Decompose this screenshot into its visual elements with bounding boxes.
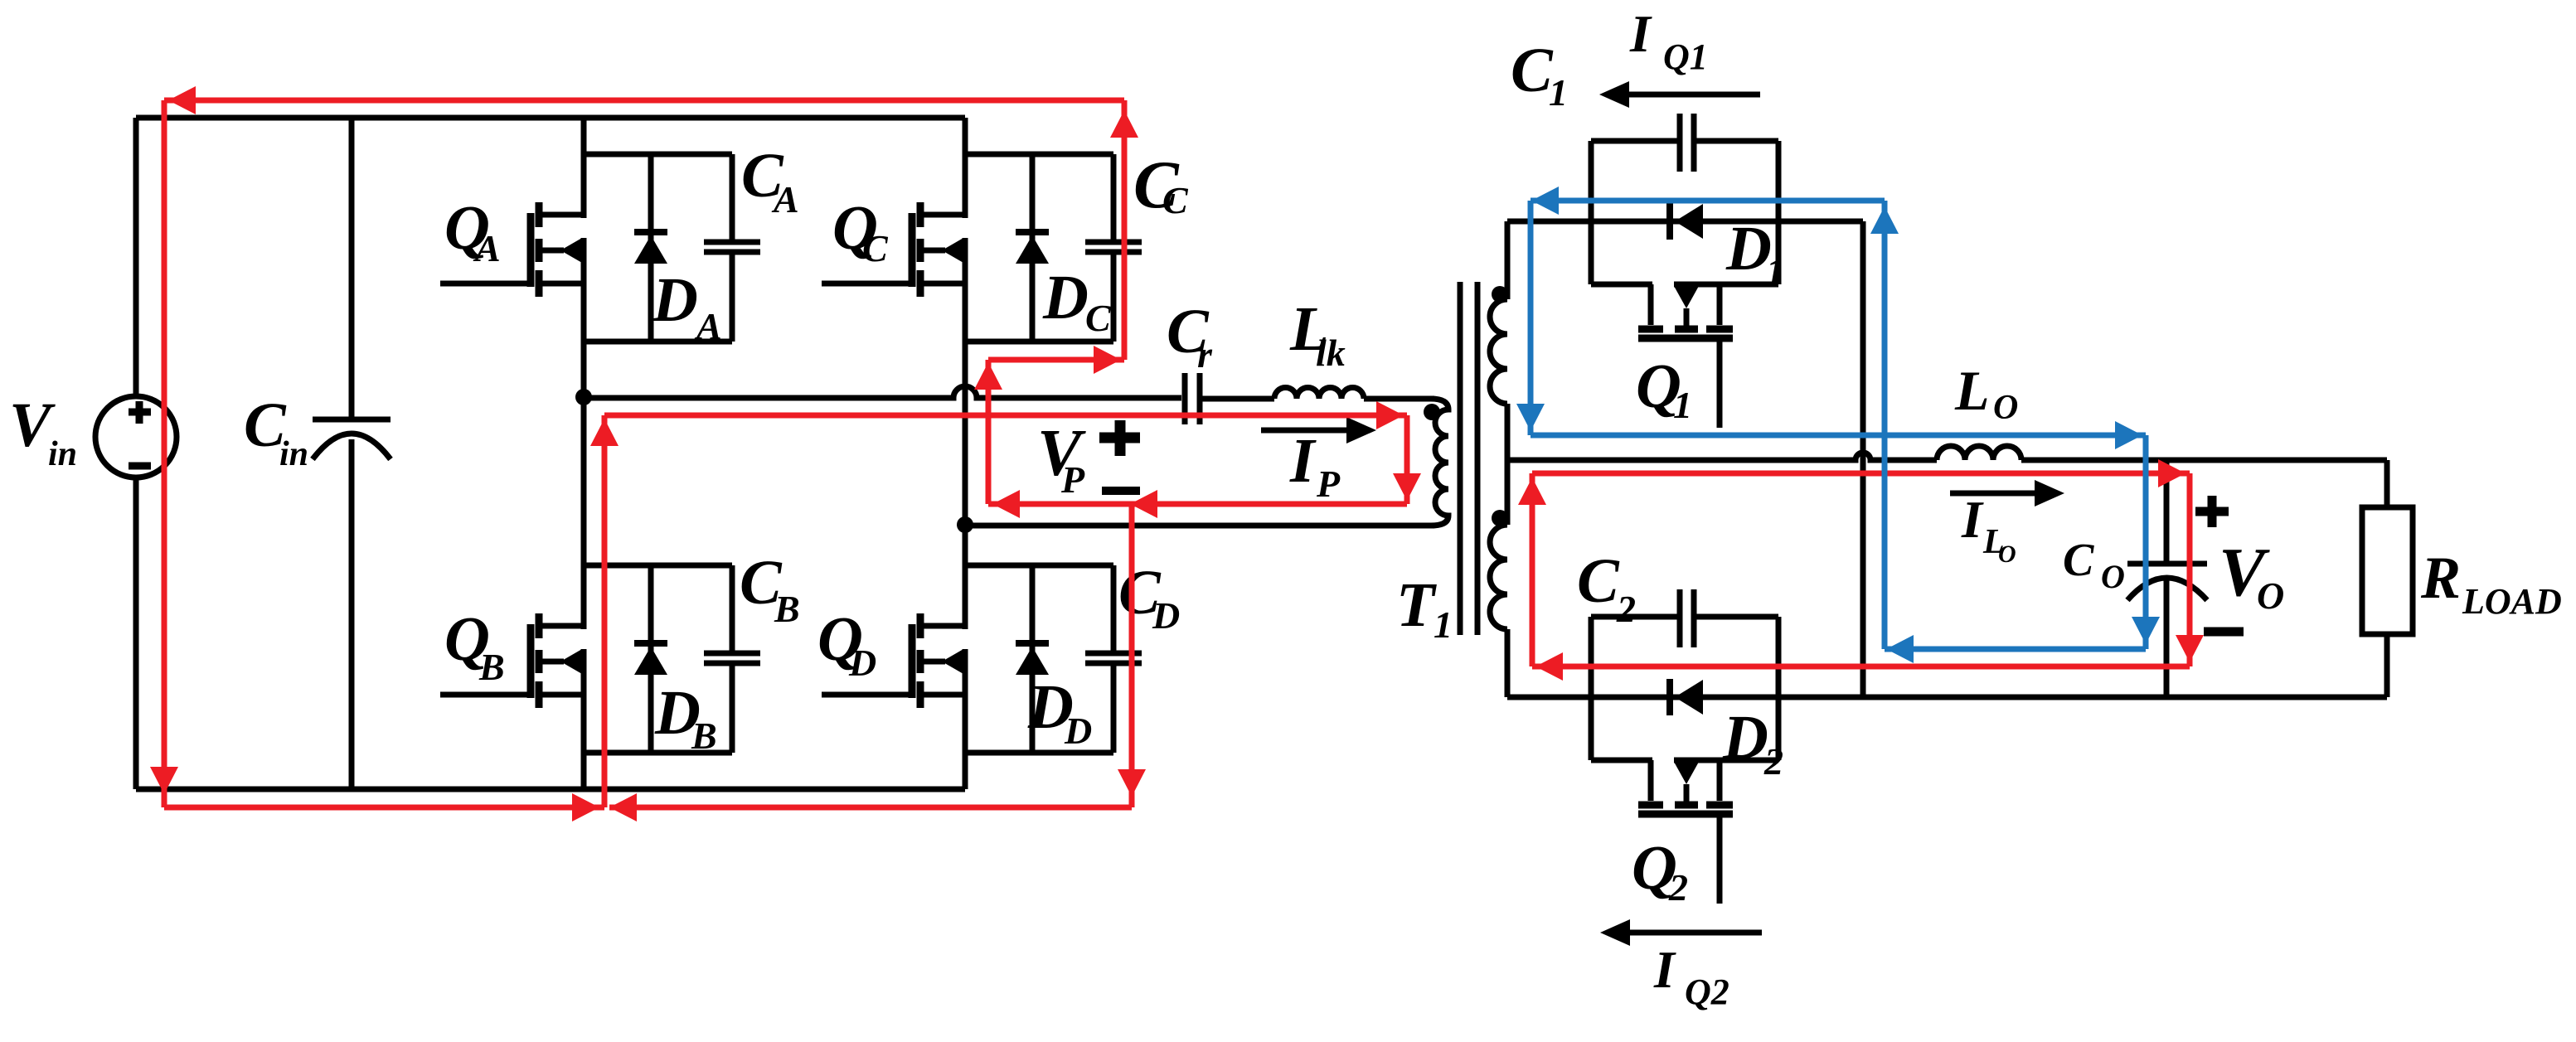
capacitor Cin top lead	[349, 118, 355, 419]
wire blue mid segment	[1531, 433, 2146, 439]
VP plus sign	[1099, 420, 1140, 456]
wire snubber box bottom (QA cell)	[584, 339, 732, 345]
capacitor CD upper lead	[1111, 565, 1117, 653]
transistor QA channel segments	[536, 202, 543, 227]
svg-text:D: D	[1725, 214, 1772, 284]
diode D1 triangle	[1675, 204, 1703, 239]
transistor QD gate bar	[909, 624, 916, 698]
red arrowhead left (sec bottom)	[1535, 652, 1563, 681]
wire C2 box top	[1591, 614, 1680, 620]
capacitor CA lower lead	[730, 252, 735, 342]
transistor Q2 drain lead	[1648, 760, 1654, 801]
svg-text:I: I	[1961, 490, 1984, 549]
transistor QD channel segments	[917, 613, 924, 638]
wire bottom secondary rail	[1507, 695, 2387, 700]
svg-text:D: D	[1722, 703, 1768, 773]
svg-text:1: 1	[1673, 384, 1692, 426]
wire leg B source vertical	[581, 649, 587, 789]
diode DA triangle	[634, 235, 667, 264]
output minus sign	[2204, 628, 2244, 637]
node A (junction dot)	[575, 389, 592, 405]
wire Cr to Llk	[1200, 396, 1274, 402]
red arrowhead down (left segment)	[150, 767, 178, 794]
output plus sign	[2195, 496, 2229, 527]
diode DA vertical wire	[648, 154, 654, 342]
diode DD cathode bar	[1016, 640, 1049, 647]
wire snubber box top (QB cell)	[584, 563, 732, 569]
wire leg A drain vertical	[581, 118, 587, 218]
wire red loop CC riser	[1122, 100, 1128, 360]
capacitor Cin bottom lead	[349, 439, 355, 789]
diode DB triangle	[634, 647, 667, 675]
capacitor Cin top plate	[313, 417, 391, 423]
diode D1 cathode bar	[1666, 203, 1673, 240]
transformer T1 primary winding	[1431, 399, 1448, 526]
capacitor CC plates	[1085, 240, 1142, 245]
wire red sec riser	[1530, 473, 1535, 666]
wire primary return to node B	[965, 523, 1434, 529]
transistor Q2 body arrow	[1684, 784, 1690, 804]
svg-text:T: T	[1396, 570, 1437, 640]
capacitor CB lower lead	[730, 663, 735, 753]
wire snubber box bottom (QB cell)	[584, 750, 732, 756]
current arrow IQ2	[1628, 930, 1762, 936]
transformer top secondary polarity dot	[1492, 286, 1508, 303]
wire C1 box right	[1776, 141, 1782, 284]
diode DD triangle	[1016, 647, 1049, 675]
capacitor Co curved plate	[2127, 578, 2207, 600]
resistor RLOAD bottom lead	[2384, 634, 2390, 697]
wire snubber box bottom (QC cell)	[965, 339, 1113, 345]
red arrowhead right (bottom-left)	[572, 793, 599, 821]
svg-text:I: I	[1289, 426, 1317, 496]
transistor QD source lead	[923, 692, 965, 698]
transistor QA source lead	[541, 281, 584, 287]
transistor Q1 source lead	[1717, 284, 1723, 325]
red arrowhead up (QB riser)	[590, 419, 619, 446]
wire red loop top segment	[164, 98, 1124, 104]
wire D1 rail right drop	[1860, 221, 1866, 697]
wire Llk to primary winding	[1364, 396, 1434, 402]
blue arrowhead down (output drop)	[2132, 617, 2160, 644]
wire C2 box left	[1589, 617, 1594, 760]
wire red loop left segment	[162, 100, 167, 807]
wire leg C drain vertical	[963, 118, 968, 218]
wire blue top segment	[1531, 198, 1885, 204]
capacitor C2 plates	[1677, 589, 1683, 647]
svg-text:B: B	[691, 715, 717, 757]
wire red branch CD drop	[1129, 504, 1135, 807]
capacitor CA upper lead	[730, 154, 735, 242]
transformer secondary top stem	[1505, 221, 1511, 299]
diode D2 triangle	[1675, 680, 1703, 715]
blue arrowhead left (bottom)	[1886, 635, 1914, 663]
wire snubber box bottom (QD cell)	[965, 750, 1113, 756]
svg-text:D: D	[1064, 710, 1092, 752]
transformer T1 top secondary winding	[1490, 299, 1507, 404]
red arrowhead down (primary drop)	[1393, 473, 1421, 501]
svg-text:C: C	[1162, 179, 1189, 221]
wire snubber box top (QD cell)	[965, 563, 1113, 569]
transistor Q1 gate bar	[1638, 335, 1733, 342]
transistor QB drain lead	[541, 623, 584, 629]
svg-text:C: C	[862, 227, 889, 269]
wire C1 box left	[1589, 141, 1594, 284]
wire blue winding drop	[1528, 201, 1534, 435]
Vin plus sign	[129, 401, 151, 424]
capacitor Co top plate	[2127, 561, 2207, 567]
wire left vertical (Vin branch bottom)	[133, 475, 139, 789]
svg-text:C: C	[1577, 546, 1620, 616]
transistor QB source lead	[541, 692, 584, 698]
transformer T1 bottom secondary winding	[1490, 525, 1507, 629]
transformer secondary bottom stem	[1505, 629, 1511, 697]
svg-text:Q2: Q2	[1685, 972, 1729, 1012]
wire blue output drop	[2143, 435, 2149, 649]
diode DC vertical wire	[1030, 154, 1036, 342]
svg-text:O: O	[1993, 389, 2018, 427]
wire blue bottom segment	[1885, 647, 2146, 652]
diode DC cathode bar	[1016, 229, 1049, 235]
blue arrowhead left (top)	[1531, 187, 1559, 215]
red arrowhead down (CD drop)	[1118, 769, 1146, 797]
svg-text:B: B	[478, 646, 505, 688]
svg-text:P: P	[1060, 458, 1085, 501]
wire C2 box right	[1776, 617, 1782, 760]
transistor QC channel segments	[917, 202, 924, 227]
capacitor Cr plates	[1182, 373, 1188, 424]
blue arrowhead down (winding drop)	[1516, 404, 1545, 431]
capacitor CB upper lead	[730, 565, 735, 653]
transistor QC source lead	[923, 281, 965, 287]
capacitor CD plates	[1085, 651, 1142, 657]
svg-text:in: in	[48, 435, 77, 473]
resistor RLOAD top lead	[2384, 460, 2390, 507]
transistor Q2 channel segments	[1638, 802, 1663, 809]
blue arrowhead right (mid)	[2115, 421, 2142, 449]
red arrowhead up (CC riser)	[1110, 110, 1138, 138]
wire leg D source vertical	[963, 649, 968, 789]
svg-text:1: 1	[1549, 71, 1568, 114]
wire red loop QB riser	[602, 415, 608, 807]
svg-text:D: D	[1152, 594, 1180, 637]
svg-text:A: A	[771, 178, 799, 221]
capacitor Co top lead	[2164, 460, 2170, 564]
red arrowhead up (VP riser)	[974, 362, 1002, 390]
diode DB cathode bar	[634, 640, 667, 647]
svg-text:A: A	[694, 305, 722, 347]
Vin minus sign	[129, 463, 151, 470]
wire red loop CC link	[988, 357, 1124, 363]
wire Lo to load	[2021, 458, 2387, 463]
svg-text:O: O	[2101, 558, 2125, 595]
wire red loop VP return segment	[988, 502, 1407, 507]
transistor Q1 gate lead	[1717, 341, 1723, 428]
capacitor Co bottom lead	[2164, 580, 2170, 697]
wire blue riser	[1882, 201, 1888, 649]
wire leg CD mid vertical	[963, 238, 968, 629]
red arrowhead left (VP return, right)	[1130, 490, 1157, 518]
diode DC triangle	[1016, 235, 1049, 264]
VP minus sign	[1102, 487, 1140, 495]
capacitor CB plates	[704, 651, 760, 657]
diode DD vertical wire	[1030, 565, 1036, 753]
svg-text:C: C	[2063, 535, 2094, 586]
red arrowhead left (VP return, left)	[992, 490, 1020, 518]
transistor QA gate bar	[527, 213, 535, 287]
wire red loop primary drop	[1404, 415, 1410, 504]
inductor Lo	[1937, 446, 2021, 460]
wire red branch bottom-right segment	[609, 805, 1132, 811]
wire C2 box bottom	[1591, 758, 1652, 763]
wire bottom rail	[136, 787, 965, 792]
blue arrowhead up (riser)	[1870, 206, 1899, 234]
transistor Q1 channel segments	[1638, 326, 1663, 333]
diode DB vertical wire	[648, 565, 654, 753]
svg-text:A: A	[473, 227, 501, 269]
svg-text:O: O	[1998, 540, 2016, 568]
wire leg AB mid vertical	[581, 238, 587, 629]
transistor Q2 gate lead	[1717, 817, 1723, 904]
inductor Llk	[1274, 388, 1364, 399]
wire top rail	[136, 115, 965, 121]
resistor RLOAD body	[2362, 507, 2413, 634]
wire center-tap rail with hop and Lo	[1507, 453, 1937, 460]
transistor QC body arrow	[923, 248, 945, 254]
svg-text:1: 1	[1434, 603, 1453, 646]
transistor QB channel segments	[536, 613, 543, 638]
svg-text:r: r	[1197, 333, 1213, 376]
svg-text:I: I	[1653, 940, 1676, 999]
red arrowhead right (sec top)	[2158, 459, 2185, 487]
transistor QC drain lead	[923, 212, 965, 218]
transistor Q2 source lead	[1717, 760, 1723, 801]
current arrow ILo	[1950, 491, 2037, 497]
transistor QA gate lead	[440, 281, 534, 287]
red arrowhead up (sec riser)	[1518, 477, 1546, 505]
voltage source Vin circle	[95, 396, 177, 477]
red arrowhead down (sec drop)	[2176, 635, 2204, 662]
svg-text:2: 2	[1763, 740, 1783, 783]
wire snubber box top (QA cell)	[584, 152, 732, 158]
transistor QD body arrow	[923, 659, 945, 665]
svg-text:LOAD: LOAD	[2462, 581, 2562, 622]
wire red sec bottom segment	[1532, 664, 2190, 670]
svg-text:O: O	[2257, 574, 2284, 617]
red arrowhead right (CC link)	[1094, 346, 1121, 374]
transistor Q2 gate bar	[1638, 811, 1733, 818]
svg-text:B: B	[774, 588, 800, 630]
transistor QD drain lead	[923, 623, 965, 629]
transformer primary polarity dot	[1424, 404, 1440, 420]
transistor QB gate bar	[527, 624, 535, 698]
svg-text:D: D	[652, 265, 698, 335]
diode DA cathode bar	[634, 229, 667, 235]
svg-text:lk: lk	[1316, 332, 1346, 374]
red arrowhead right (mid segment)	[1376, 401, 1404, 429]
node B (junction dot, CD midpoint)	[957, 516, 973, 533]
svg-text:D: D	[1042, 263, 1089, 332]
red arrowhead left (top segment)	[168, 86, 196, 114]
wire red sec top segment	[1532, 471, 2190, 477]
transistor QB gate lead	[440, 692, 534, 698]
diode D2 cathode bar	[1666, 679, 1673, 715]
wire red loop VP riser	[986, 360, 992, 504]
transformer bottom secondary polarity dot	[1492, 510, 1508, 526]
svg-text:in: in	[279, 435, 308, 473]
transistor QD gate lead	[822, 692, 915, 698]
current arrow IQ1	[1627, 92, 1760, 98]
svg-text:C: C	[1511, 36, 1554, 105]
wire C1 box bottom	[1591, 282, 1652, 288]
capacitor CC upper lead	[1111, 154, 1117, 242]
transistor QB body arrow	[541, 659, 564, 665]
wire snubber box top (QC cell)	[965, 152, 1113, 158]
wire red sec output drop	[2187, 473, 2193, 666]
capacitor CD lower lead	[1111, 663, 1117, 753]
svg-text:2: 2	[1616, 588, 1636, 630]
svg-text:C: C	[1085, 297, 1112, 339]
wire red loop bottom-left segment	[164, 805, 604, 811]
capacitor C1 plates	[1677, 114, 1683, 172]
transistor QC gate lead	[822, 281, 915, 287]
svg-text:R: R	[2420, 545, 2461, 611]
transistor QA body arrow	[541, 248, 564, 254]
svg-text:2: 2	[1668, 866, 1688, 909]
transformer T1 core	[1458, 282, 1463, 635]
wire C1 box top	[1591, 138, 1680, 144]
transistor QC gate bar	[909, 213, 916, 287]
svg-text:I: I	[1629, 4, 1652, 63]
wire red loop mid segment	[604, 413, 1407, 419]
capacitor CC lower lead	[1111, 252, 1117, 342]
wire left vertical (Vin branch top)	[133, 118, 139, 399]
capacitor CA plates	[704, 240, 760, 245]
svg-text:L: L	[1954, 359, 1990, 422]
red arrowhead left (bottom-right)	[609, 793, 637, 821]
transistor Q1 body arrow	[1684, 308, 1690, 328]
svg-text:P: P	[1316, 463, 1341, 505]
svg-text:D: D	[848, 642, 876, 684]
wire D1 rail	[1507, 219, 1863, 225]
current arrow IP	[1261, 428, 1348, 434]
svg-text:Q1: Q1	[1663, 36, 1708, 77]
wire node A to Cr (with hop over leg C)	[584, 386, 1181, 398]
transistor Q1 drain lead	[1648, 284, 1654, 325]
capacitor Cin curved plate	[313, 434, 391, 459]
transistor QA drain lead	[541, 212, 584, 218]
transformer secondary center link	[1505, 404, 1511, 525]
